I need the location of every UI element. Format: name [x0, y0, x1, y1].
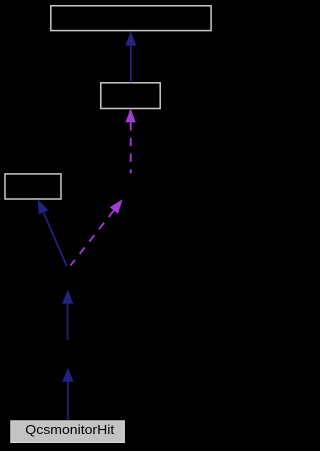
svg-text:QcsmonitorHit: QcsmonitorHit — [25, 422, 114, 437]
edge inheritance arrow box4 -> nodeC (solid midnightblue, vertical) — [62, 368, 73, 421]
node box3 (left class, gray outline) — [5, 174, 61, 199]
node box4 QcsmonitorHit (current class, filled gray) — [11, 421, 125, 443]
edge inheritance arrow nodeB -> box3 (solid midnightblue, diagonal) — [38, 199, 67, 266]
edge inheritance arrow nodeC -> nodeB (solid midnightblue, vertical) — [62, 290, 73, 340]
node box2 (second-level class, gray outline) — [101, 83, 160, 109]
edge usage arrow nodeA -> box2 (dashed darkorchid, vertical) — [125, 108, 135, 173]
edge usage arrow nodeB -> nodeA (dashed darkorchid, diagonal) — [71, 199, 123, 265]
node box1 (top base class, undocumented: gray outline) — [51, 6, 211, 31]
edge inheritance arrow box2 -> box1 (solid midnightblue shaft) — [125, 31, 136, 82]
